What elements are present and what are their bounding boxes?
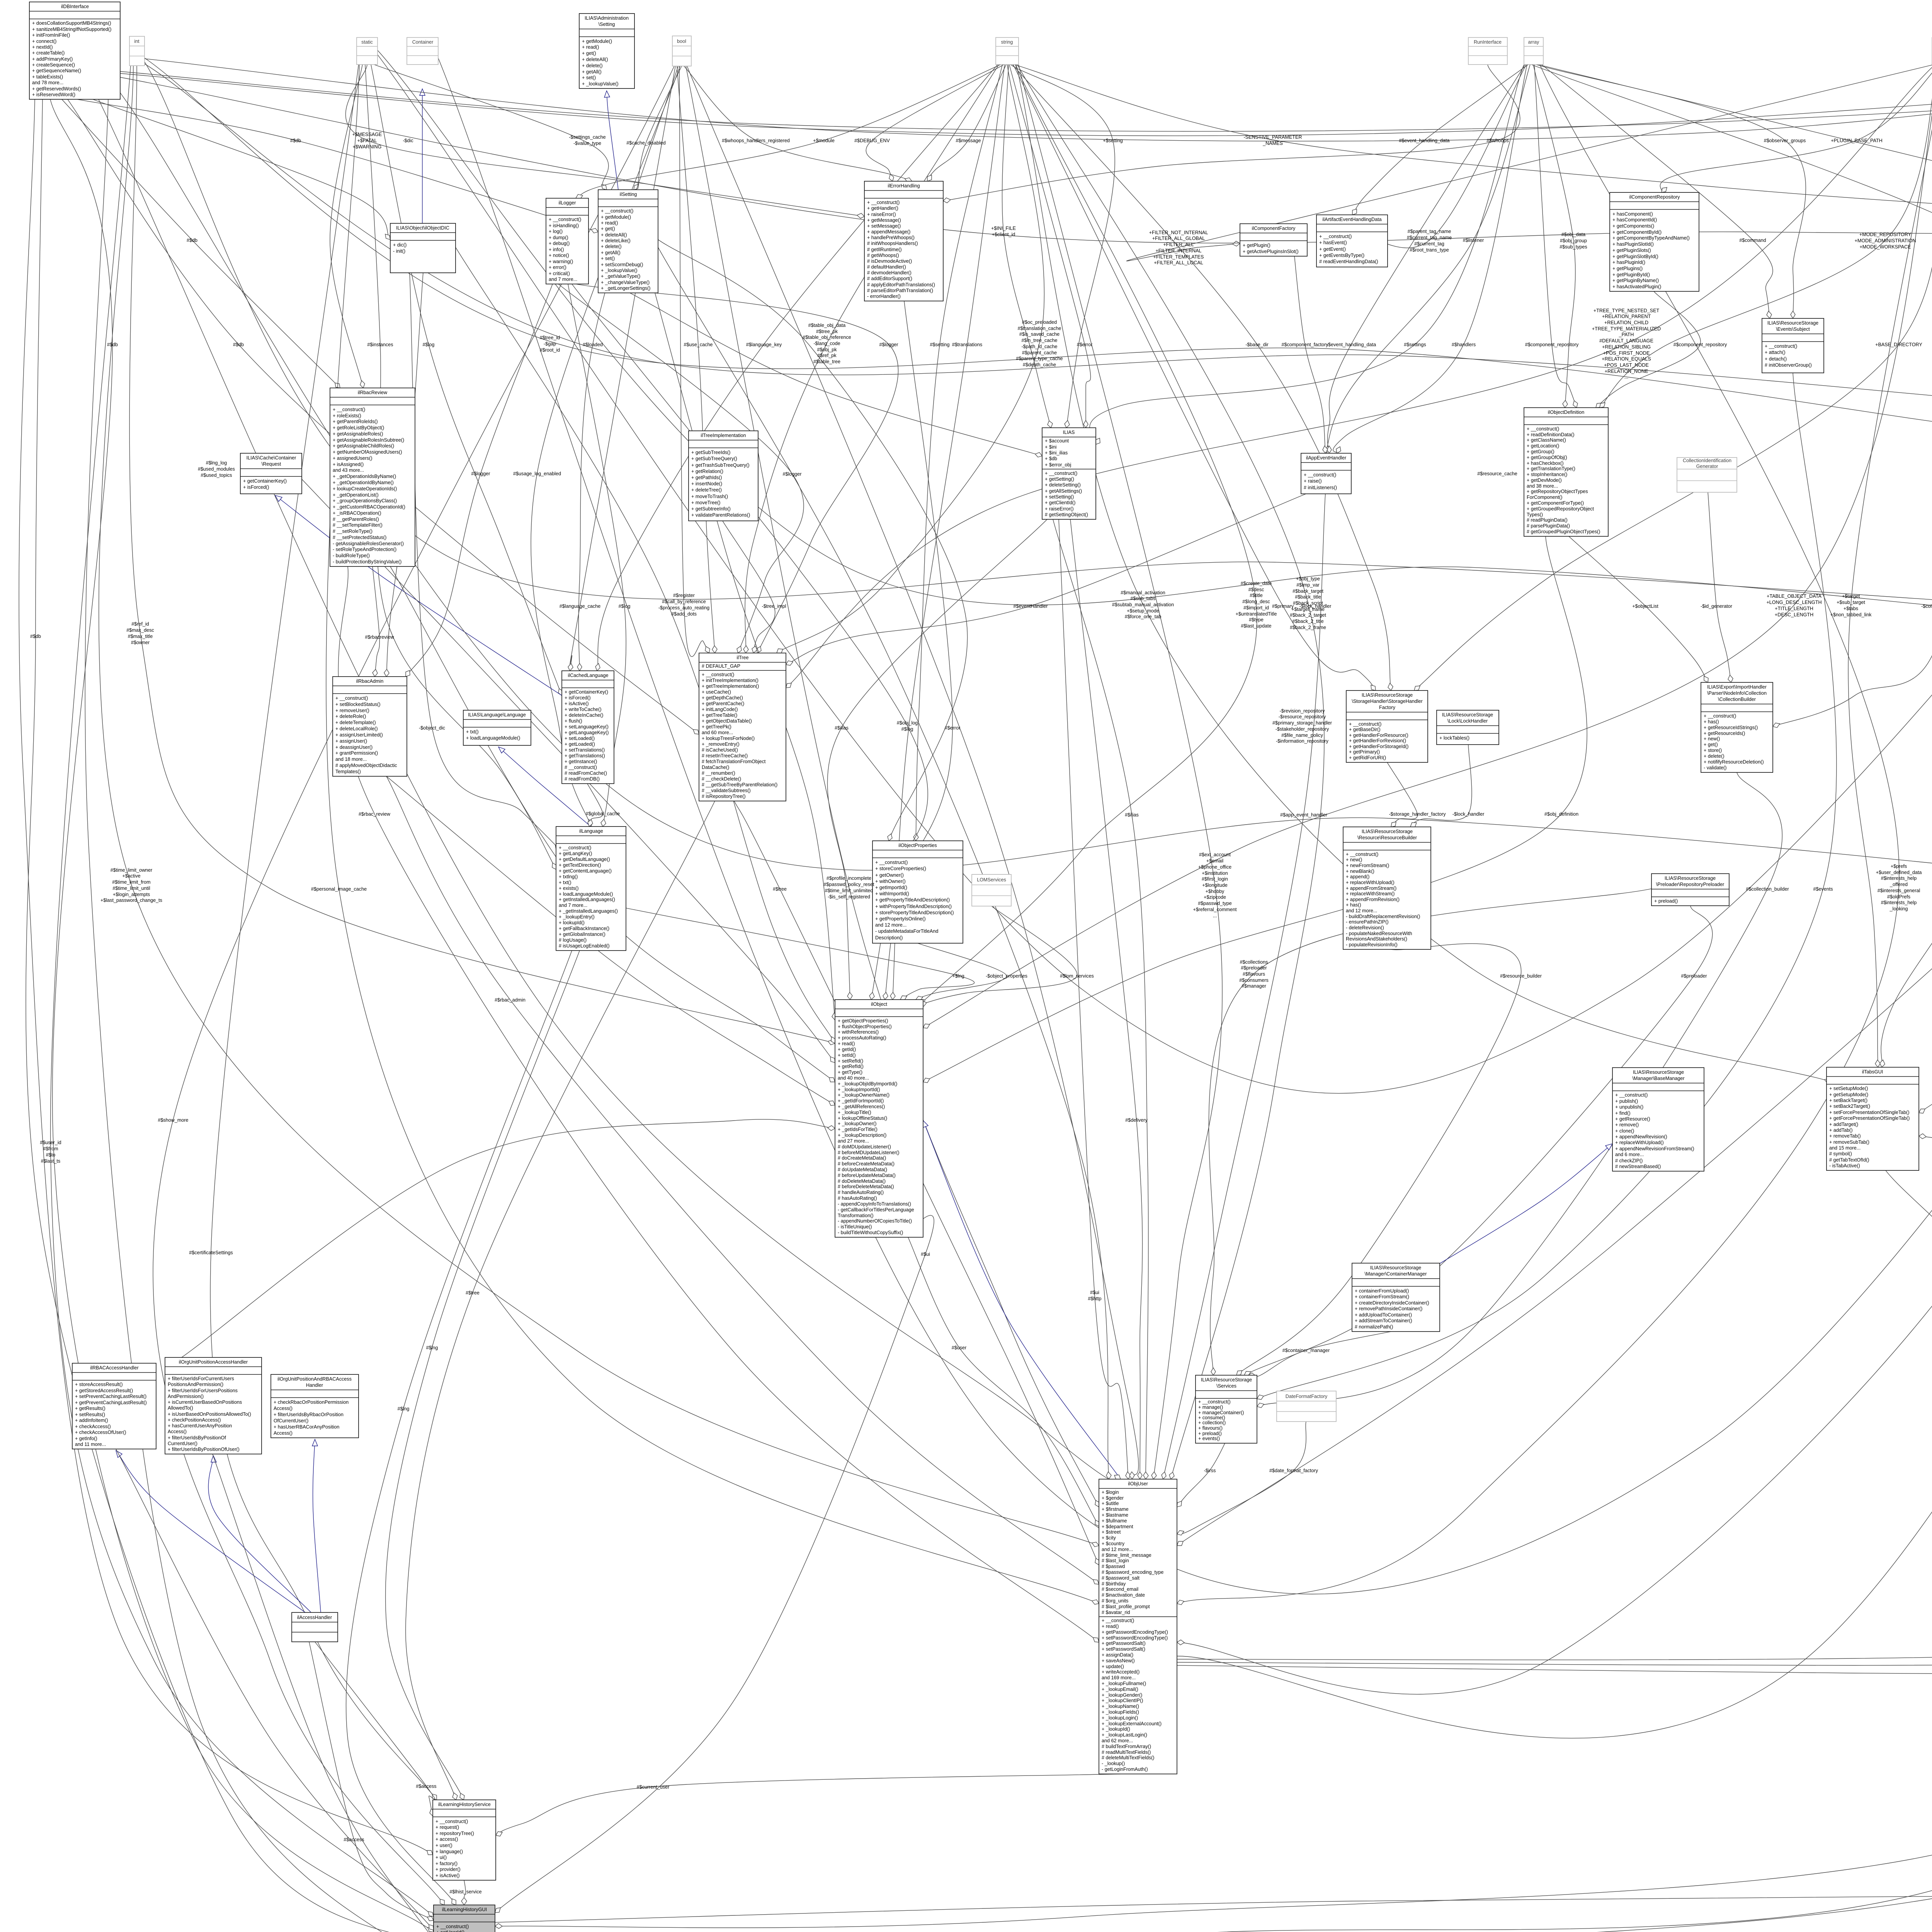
wire edge104 (883, 301, 952, 1000)
svg-text:ForComponent(): ForComponent() (1527, 495, 1562, 500)
svg-text:+ getHandlerForResource(): + getHandlerForResource() (1349, 733, 1408, 738)
svg-text:# readEventHandlingData(): # readEventHandlingData() (1319, 259, 1378, 264)
svg-text:+ filterUserIdsByPositionOfUse: + filterUserIdsByPositionOfUser() (168, 1447, 240, 1452)
svg-text:#$to: #$to (46, 1152, 56, 1158)
svg-text:+ removeUser(): + removeUser() (335, 708, 369, 713)
class CollectionIdentificationGenerator (1677, 457, 1737, 492)
svg-text:+FILTER_ALL_LOCAL: +FILTER_ALL_LOCAL (1154, 260, 1203, 265)
svg-text:bool: bool (677, 39, 686, 44)
wire edge120 (406, 801, 715, 1800)
svg-text:# defaultHandler(): # defaultHandler() (867, 264, 906, 270)
svg-text:+ __construct(): + __construct() (435, 1819, 468, 1824)
svg-text:#$import_id: #$import_id (1243, 605, 1269, 611)
svg-text:+ initFromIniFile(): + initFromIniFile() (32, 32, 70, 38)
svg-text:Access(): Access() (274, 1430, 293, 1436)
svg-text:+$INI_FILE: +$INI_FILE (991, 226, 1016, 231)
wire edge32 (1014, 65, 1932, 211)
class ilObject (835, 1000, 923, 1237)
label -$irss (1204, 1468, 1216, 1473)
class string (996, 37, 1019, 65)
svg-text:+ getAll(): + getAll() (601, 250, 621, 255)
svg-text:and 78 more...: and 78 more... (32, 80, 63, 85)
svg-text:ILIAS\ResourceStorage: ILIAS\ResourceStorage (1442, 712, 1493, 718)
label +$obj_type (1290, 576, 1326, 630)
wire edge11 (330, 65, 365, 388)
svg-text:#$type: #$type (1249, 617, 1264, 622)
svg-text:#$translations: #$translations (952, 342, 982, 347)
svg-text:#$owner: #$owner (131, 640, 150, 645)
svg-text:+$hobby: +$hobby (1206, 889, 1225, 894)
label #$ui (921, 1252, 930, 1257)
svg-text:+ __construct(): + __construct() (333, 407, 365, 412)
wire edge52 (1352, 65, 1528, 215)
svg-text:#$oldPrefs: #$oldPrefs (1887, 894, 1910, 900)
wire edge13 (326, 65, 1099, 1604)
svg-text:- init(): - init() (393, 248, 405, 254)
label -$collection_repository (1921, 604, 1932, 609)
svg-text:#$error: #$error (945, 725, 961, 731)
svg-text:+ $firstname: + $firstname (1102, 1507, 1129, 1512)
svg-text:ilTree: ilTree (736, 655, 748, 660)
class ilAppEventHandler (1301, 453, 1351, 494)
svg-text:+ request(): + request() (435, 1825, 459, 1830)
svg-text:+RELATION_CHILD: +RELATION_CHILD (1604, 320, 1648, 325)
svg-text:+ publish(): + publish() (1615, 1099, 1638, 1104)
svg-text:# __checkDelete(): # __checkDelete() (702, 776, 741, 782)
svg-text:ilObjectDefinition: ilObjectDefinition (1548, 410, 1585, 415)
svg-text:#$primary_storage_handler: #$primary_storage_handler (1272, 720, 1332, 726)
svg-text:+ loadLanguageModule(): + loadLanguageModule() (466, 735, 520, 741)
wire edge168 (85, 99, 434, 1932)
svg-text:ILIAS\ResourceStorage: ILIAS\ResourceStorage (1767, 320, 1818, 326)
svg-text:- buildRoleType(): - buildRoleType() (333, 553, 370, 558)
wire edge26 (679, 66, 710, 656)
svg-text:#$obj_log: #$obj_log (897, 720, 918, 726)
svg-text:- deleteRevision(): - deleteRevision() (1346, 925, 1384, 930)
svg-text:+ hasActivatedPlugin(): + hasActivatedPlugin() (1612, 284, 1661, 289)
svg-text:#$event_handling_data: #$event_handling_data (1399, 138, 1450, 143)
svg-text:+ getDevMode(): + getDevMode() (1527, 478, 1562, 483)
svg-text:+ setUserId(): + setUserId() (436, 1930, 464, 1932)
svg-text:+ getGroupedRepositoryObject: + getGroupedRepositoryObject (1527, 506, 1594, 512)
svg-text:Handler: Handler (306, 1383, 323, 1388)
class ilRbacReview (330, 388, 415, 566)
wire edge74 (1919, 65, 1932, 1208)
svg-text:+$untranslatedTitle: +$untranslatedTitle (1236, 611, 1277, 617)
svg-text:#$events: #$events (1813, 886, 1833, 892)
wire edge113 (338, 566, 1099, 1642)
class ilAccessHandler (292, 1612, 338, 1642)
svg-text:+ validateParentRelations(): + validateParentRelations() (691, 512, 750, 518)
svg-text:+ getRoleListByObject(): + getRoleListByObject() (333, 425, 384, 430)
svg-text:# __setRoleType(): # __setRoleType() (333, 529, 372, 534)
label #$obj_data (1560, 232, 1587, 250)
svg-text:+ getPathIds(): + getPathIds() (691, 475, 722, 480)
label #$rbac_admin (495, 997, 526, 1003)
wire edge147 (495, 1893, 1932, 1922)
svg-text:+ containerFromStream(): + containerFromStream() (1355, 1294, 1409, 1299)
svg-text:#$manager: #$manager (1242, 983, 1266, 989)
svg-text:+ tableExists(): + tableExists() (32, 74, 63, 80)
svg-text:ilArtifactEventHandlingData: ilArtifactEventHandlingData (1322, 217, 1381, 222)
svg-text:+ _changeValueType(): + _changeValueType() (601, 280, 650, 285)
svg-text:PositionsAndPermission(): PositionsAndPermission() (168, 1382, 223, 1387)
svg-text:#$db: #$db (290, 138, 301, 143)
svg-text:#$sub_types: #$sub_types (1560, 244, 1587, 250)
svg-text:#$setting: #$setting (930, 342, 949, 347)
svg-text:ilRbacAdmin: ilRbacAdmin (356, 679, 384, 684)
label #$whoops_handlers_registered (722, 138, 790, 143)
svg-text:+ setTranslations(): + setTranslations() (565, 747, 605, 753)
label #$db (30, 634, 41, 639)
wire edge33 (1002, 65, 1053, 428)
class DateFormatFactory (1277, 1391, 1336, 1422)
svg-text:+ roleExists(): + roleExists() (333, 413, 361, 418)
svg-text:# __getSubTreeByParentRelation: # __getSubTreeByParentRelation() (702, 782, 777, 787)
svg-text:and 7 more...: and 7 more... (559, 903, 587, 908)
svg-text:+ getObjectProperties(): + getObjectProperties() (838, 1018, 888, 1024)
label -$base_dir (1245, 342, 1269, 347)
svg-text:+ assignedUsers(): + assignedUsers() (333, 456, 372, 461)
svg-text:+ getResourceIdStrings(): + getResourceIdStrings() (1704, 725, 1758, 730)
class ilCachedLanguage (562, 671, 614, 784)
svg-text:+ access(): + access() (435, 1837, 458, 1842)
svg-text:+RELATION_EQUALS: +RELATION_EQUALS (1602, 356, 1651, 362)
svg-text:#$preloader: #$preloader (1681, 973, 1707, 979)
svg-text:#$logger: #$logger (782, 471, 801, 477)
svg-text:#$back_2_title: #$back_2_title (1292, 619, 1323, 624)
svg-text:#$profile_incomplete: #$profile_incomplete (827, 876, 871, 881)
svg-text:#$DEBUG_ENV: #$DEBUG_ENV (854, 138, 890, 143)
svg-text:+ setPasswordEncodingType(): + setPasswordEncodingType() (1102, 1635, 1168, 1641)
label #$resource_cache (1477, 471, 1517, 476)
wire edge90 (1387, 762, 1417, 827)
svg-text:#$back_2_frame: #$back_2_frame (1290, 625, 1326, 630)
svg-text:+ _lookupValue(): + _lookupValue() (582, 81, 619, 87)
svg-text:+ read(): + read() (582, 44, 599, 50)
svg-text:- getCallbackForTitlesPerLangu: - getCallbackForTitlesPerLanguage (838, 1207, 914, 1213)
svg-text:and 169 more...: and 169 more... (1102, 1675, 1136, 1680)
svg-text:# getTabTextOfId(): # getTabTextOfId() (1829, 1157, 1869, 1163)
svg-text:+ collection(): + collection() (1198, 1420, 1226, 1425)
wire edge10 (345, 65, 864, 218)
svg-text:-$storage_handler_factory: -$storage_handler_factory (1389, 811, 1446, 817)
label #$logger (471, 471, 490, 476)
wire edge22 (531, 66, 680, 827)
wire edge1 (77, 99, 598, 233)
svg-text:- ensurePathInZIP(): - ensurePathInZIP() (1346, 919, 1389, 925)
svg-text:#$depth_cache: #$depth_cache (1023, 362, 1056, 367)
svg-text:# getIlRuntime(): # getIlRuntime() (867, 247, 902, 252)
svg-text:+ doesCollationSupportMB4Strin: + doesCollationSupportMB4Strings() (32, 20, 111, 26)
svg-text:+ checkRbacOrPositionPermissio: + checkRbacOrPositionPermission (274, 1400, 349, 1405)
svg-text:+ getAssignableChildRoles(): + getAssignableChildRoles() (333, 443, 394, 449)
svg-text:+ deleteInCache(): + deleteInCache() (565, 713, 603, 718)
svg-text:+ getLanguageKey(): + getLanguageKey() (565, 730, 609, 735)
svg-text:+ __construct(): + __construct() (1346, 852, 1378, 857)
svg-text:ilAppEventHandler: ilAppEventHandler (1306, 455, 1346, 461)
svg-text:# $second_email: # $second_email (1102, 1587, 1138, 1592)
svg-text:+ _removeEntry(): + _removeEntry() (702, 742, 740, 747)
svg-text:+ attach(): + attach() (1765, 350, 1786, 355)
label #$lng_log (198, 460, 235, 478)
svg-text:\Services: \Services (1216, 1383, 1236, 1389)
class ilRbacAdmin (333, 677, 407, 776)
svg-text:+$objectList: +$objectList (1632, 604, 1658, 609)
wire edge24 (153, 66, 674, 1905)
svg-text:+ __construct(): + __construct() (335, 696, 368, 701)
svg-text:\Parser\NodeInfo\Collection: \Parser\NodeInfo\Collection (1707, 690, 1767, 696)
label #$show_more (158, 1117, 188, 1123)
svg-text:+ storePropertyTitleAndDescrip: + storePropertyTitleAndDescription() (875, 910, 954, 915)
svg-text:#$time_limit_until: #$time_limit_until (112, 886, 150, 891)
label #$language_cache (560, 604, 600, 609)
svg-text:- getAssignableRolesGenerator(: - getAssignableRolesGenerator() (333, 541, 404, 546)
svg-text:+ flush(): + flush() (565, 718, 582, 724)
wire edge133 (1919, 932, 1932, 1113)
svg-text:#$resource_builder: #$resource_builder (1500, 973, 1542, 979)
svg-text:+ addTarget(): + addTarget() (1829, 1122, 1858, 1127)
svg-text:+ set(): + set() (601, 256, 615, 261)
svg-text:+ filterUserIdsForCurrentUsers: + filterUserIdsForCurrentUsers (168, 1376, 234, 1381)
wire edge18 (374, 65, 609, 190)
svg-text:#$observer_groups: #$observer_groups (1764, 138, 1806, 143)
svg-text:#$passwd_policy_reset: #$passwd_policy_reset (824, 882, 874, 887)
svg-text:and 6 more...: and 6 more... (1615, 1152, 1644, 1157)
svg-text:+ getHandler(): + getHandler() (867, 206, 898, 211)
svg-text:+ setBackTarget(): + setBackTarget() (1829, 1098, 1867, 1103)
svg-text:\Lock\LockHandler: \Lock\LockHandler (1447, 718, 1488, 724)
svg-text:+ isAssigned(): + isAssigned() (333, 462, 364, 467)
svg-text:#$certificateSettings: #$certificateSettings (189, 1250, 233, 1255)
svg-text:+ getSubTreeQuery(): + getSubTreeQuery() (691, 456, 737, 461)
svg-text:# $last_login: # $last_login (1102, 1558, 1129, 1563)
wire edge173 (99, 99, 1121, 1481)
svg-text:#$global_cache: #$global_cache (586, 811, 620, 816)
wire edge6 (93, 99, 390, 240)
svg-text:ilComponentFactory: ilComponentFactory (1252, 226, 1296, 231)
svg-text:+ stopInheritance(): + stopInheritance() (1527, 472, 1567, 477)
svg-text:+ withImportId(): + withImportId() (875, 891, 909, 896)
svg-text:+ log(): + log() (549, 229, 563, 234)
svg-text:ilOrgUnitPositionAndRBACAccess: ilOrgUnitPositionAndRBACAccess (277, 1376, 352, 1382)
svg-text:#$collections: #$collections (1240, 959, 1268, 965)
svg-text:+ $account: + $account (1045, 438, 1069, 444)
svg-text:# handleAutoRating(): # handleAutoRating() (838, 1190, 884, 1195)
svg-text:+ lookupId(): + lookupId() (559, 920, 585, 925)
svg-text:# fetchTranslationFromObject: # fetchTranslationFromObject (702, 759, 766, 764)
svg-text:+ readDefinitionData(): + readDefinitionData() (1527, 432, 1575, 437)
svg-text:#$language_key: #$language_key (746, 342, 782, 347)
class array (1524, 37, 1543, 65)
svg-text:#$primary: #$primary (1272, 604, 1294, 609)
svg-text:array: array (1528, 39, 1539, 45)
svg-text:+ _getIdForImportId(): + _getIdForImportId() (838, 1098, 884, 1104)
svg-text:+ replaceWithUpload(): + replaceWithUpload() (1615, 1140, 1664, 1145)
wire edge158 (438, 58, 1932, 1594)
svg-text:+ setSetupMode(): + setSetupMode() (1829, 1086, 1868, 1091)
wire edge55 (1321, 65, 1526, 248)
svg-text:- appendCopyInfoToTranslations: - appendCopyInfoToTranslations() (838, 1201, 911, 1207)
svg-text:- validate(): - validate() (1704, 765, 1727, 770)
svg-text:and 15 more...: and 15 more... (1829, 1145, 1861, 1151)
wire edge93 (1244, 906, 1713, 1376)
wire edge34 (743, 65, 999, 653)
svg-text:# $password_salt: # $password_salt (1102, 1575, 1140, 1581)
svg-text:#$instances: #$instances (367, 342, 393, 347)
svg-text:+ read(): + read() (838, 1041, 855, 1046)
wire edge65 (1596, 291, 1701, 408)
svg-text:+ getLoaded(): + getLoaded() (565, 742, 595, 747)
wire edge40 (1012, 65, 1393, 690)
wire edge132 (495, 1170, 1932, 1929)
svg-text:+POS_FIRST_NODE: +POS_FIRST_NODE (1603, 350, 1650, 356)
svg-text:#$back_title: #$back_title (1295, 594, 1321, 600)
label #$date_format_factory (1269, 1468, 1318, 1473)
svg-text:+ $lastname: + $lastname (1102, 1512, 1128, 1518)
svg-text:+ new(): + new() (1346, 857, 1362, 862)
wire edge70 (1414, 65, 1932, 690)
svg-text:+ info(): + info() (549, 247, 564, 252)
svg-text:+ moveTree(): + moveTree() (691, 500, 720, 505)
svg-text:+ delete(): + delete() (1704, 753, 1725, 759)
svg-text:+ _lookupGender(): + _lookupGender() (1102, 1692, 1142, 1698)
wire edge130 (495, 545, 1932, 1932)
svg-text:+ storeCoreProperties(): + storeCoreProperties() (875, 866, 926, 871)
svg-text:#$create_date: #$create_date (1241, 581, 1272, 586)
svg-text:#$current_tag: #$current_tag (1414, 241, 1444, 247)
svg-text:+ delete(): + delete() (582, 63, 603, 68)
svg-text:+ appendFromStream(): + appendFromStream() (1346, 886, 1396, 891)
label #$rbac_review (359, 811, 391, 817)
svg-text:+ flavours(): + flavours() (1198, 1425, 1223, 1431)
svg-text:+ appendNewRevisionFromStream(: + appendNewRevisionFromStream() (1615, 1146, 1694, 1151)
svg-text:+ getPluginSlotById(): + getPluginSlotById() (1612, 254, 1658, 259)
label -$settings_cache (569, 134, 605, 146)
svg-text:+ setLanguageKey(): + setLanguageKey() (565, 724, 609, 730)
wire edge62 (1177, 65, 1899, 1605)
class LockHandler (1437, 710, 1499, 745)
svg-text:+ addStreamToContainer(): + addStreamToContainer() (1355, 1318, 1412, 1323)
svg-text:+ raise(): + raise() (1304, 478, 1322, 484)
label #$tree (466, 1290, 480, 1296)
svg-text:ILIAS\ResourceStorage: ILIAS\ResourceStorage (1362, 692, 1413, 698)
wire edge5 (26, 99, 434, 1932)
svg-text:+$active: +$active (122, 873, 140, 879)
svg-text:and 11 more...: and 11 more... (75, 1442, 106, 1447)
svg-text:+ appendNewRevision(): + appendNewRevision() (1615, 1134, 1667, 1139)
svg-text:int: int (134, 39, 139, 44)
svg-text:#$component_repository: #$component_repository (1525, 342, 1579, 347)
label #$observer_groups (1764, 138, 1806, 143)
svg-text:# $passwd: # $passwd (1102, 1564, 1125, 1569)
svg-text:#$delivery: #$delivery (1125, 1117, 1148, 1123)
svg-text:+TREE_TYPE_NESTED_SET: +TREE_TYPE_NESTED_SET (1594, 308, 1660, 313)
svg-text:+ handlePreWhoops(): + handlePreWhoops() (867, 235, 915, 240)
svg-text:+ _getOperationList(): + _getOperationList() (333, 492, 379, 498)
wire edge2 (62, 99, 340, 388)
wire edge157 (377, 54, 1932, 1094)
svg-text:# isUsageLogEnabled(): # isUsageLogEnabled() (559, 943, 610, 949)
svg-text:+ __construct(): + __construct() (702, 672, 734, 677)
wire edge75 (1848, 65, 1932, 1067)
svg-text:+ setPreventCachingLastResult(: + setPreventCachingLastResult() (75, 1394, 146, 1399)
svg-text:+ getPluginSlots(): + getPluginSlots() (1612, 248, 1651, 253)
svg-text:+ getRefId(): + getRefId() (838, 1064, 864, 1069)
svg-text:+ checkPositionAccess(): + checkPositionAccess() (168, 1417, 221, 1423)
wire edge164 (658, 240, 968, 841)
svg-text:- buildDraftReplacementRevisio: - buildDraftReplacementRevision() (1346, 914, 1420, 919)
svg-text:+ __construct(): + __construct() (1304, 472, 1336, 478)
svg-text:+ $fullname: + $fullname (1102, 1518, 1127, 1524)
wire edge169 (1177, 1665, 1932, 1677)
svg-text:#$max_title: #$max_title (128, 634, 153, 639)
label +TREE_TYPE_NESTED_SET (1592, 308, 1661, 380)
svg-text:+ getEventsByType(): + getEventsByType() (1319, 253, 1364, 258)
svg-text:#$parent_cache: #$parent_cache (1022, 350, 1057, 355)
svg-text:Access(): Access() (274, 1406, 293, 1411)
class ilDBInterface (29, 2, 120, 99)
label #$container_manager (1282, 1348, 1330, 1353)
wire edge119 (723, 521, 775, 653)
wire edge96 (1248, 1332, 1391, 1378)
label #$ilias (835, 725, 849, 731)
svg-text:+ getForcePresentationOfSingle: + getForcePresentationOfSingleTab() (1829, 1116, 1910, 1121)
svg-text:+ getId(): + getId() (838, 1047, 856, 1052)
wire edge87 (1708, 492, 1733, 682)
svg-text:+$login_attempts: +$login_attempts (113, 892, 150, 897)
wire edge165 (658, 247, 1111, 1479)
svg-text:+ getSequenceName(): + getSequenceName() (32, 68, 81, 73)
svg-text:ilRBACAccessHandler: ilRBACAccessHandler (90, 1365, 138, 1371)
svg-text:# __construct(): # __construct() (565, 765, 597, 770)
svg-text:+MODE_ADMINISTRATION: +MODE_ADMINISTRATION (1855, 238, 1916, 243)
svg-text:+ _groupOperationsByClass(): + _groupOperationsByClass() (333, 498, 397, 503)
wire edge155 (378, 50, 1932, 618)
svg-text:+$non_tabbed_link: +$non_tabbed_link (1830, 612, 1872, 617)
svg-text:ILIAS\ResourceStorage: ILIAS\ResourceStorage (1201, 1377, 1252, 1383)
class Services (1196, 1375, 1257, 1443)
svg-text:Description(): Description() (875, 935, 903, 940)
label #$message (956, 138, 981, 143)
class ilLearningHistoryService (433, 1800, 496, 1880)
svg-text:+ filterUserIdsForUsersPositio: + filterUserIdsForUsersPositions (168, 1388, 238, 1393)
svg-text:+$sub_target: +$sub_target (1837, 600, 1865, 605)
wire edge109 (786, 494, 1306, 665)
svg-text:+ getHandlerForRevision(): + getHandlerForRevision() (1349, 738, 1406, 743)
svg-text:+ __construct(): + __construct() (436, 1924, 469, 1929)
label #$delivery (1125, 1117, 1148, 1123)
svg-text:- _lookup(): - _lookup() (1102, 1761, 1125, 1766)
svg-text:and 7 more...: and 7 more... (549, 277, 577, 282)
svg-text:+ getInstance(): + getInstance() (565, 759, 597, 764)
svg-text:+ _getIdsForTitle(): + _getIdsForTitle() (838, 1127, 878, 1132)
svg-text:+BASE_DIRECTORY: +BASE_DIRECTORY (1875, 342, 1922, 347)
label -$lock_handler (1299, 604, 1332, 609)
label #$resource_builder (1500, 973, 1542, 979)
svg-text:#$obj_pk: #$obj_pk (817, 347, 837, 352)
svg-text:+PLUGIN_BASE_PATH: +PLUGIN_BASE_PATH (1831, 138, 1883, 143)
svg-text:+$obj_type: +$obj_type (1296, 576, 1320, 582)
svg-text:- populateRevisionInfo(): - populateRevisionInfo() (1346, 942, 1398, 947)
svg-text:#$force_one_tab: #$force_one_tab (1125, 614, 1162, 619)
svg-text:+$lng: +$lng (952, 973, 964, 979)
svg-text:-$object_properties: -$object_properties (986, 973, 1027, 979)
label +$module (813, 138, 835, 143)
svg-text:+$WARNING: +$WARNING (353, 144, 382, 150)
class CollectionBuilder (1701, 682, 1773, 772)
svg-text:+ deleteSetting(): + deleteSetting() (1045, 482, 1081, 488)
